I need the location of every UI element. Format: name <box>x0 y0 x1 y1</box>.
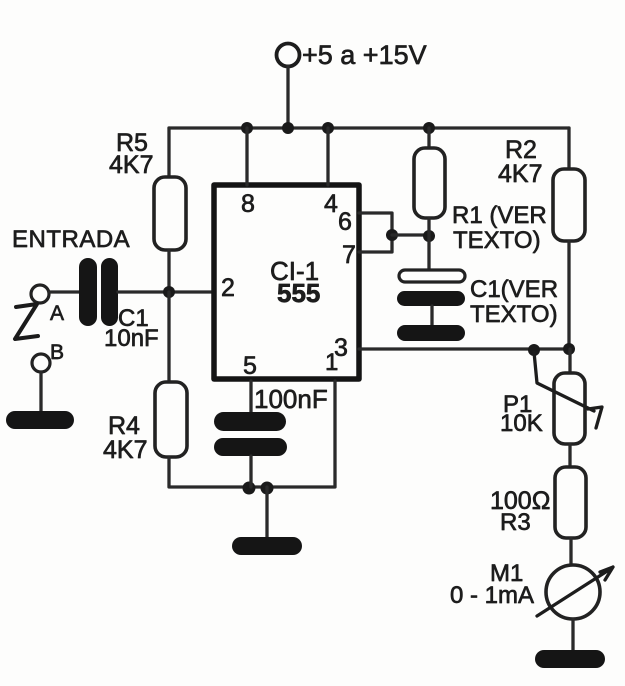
resistor R3 <box>555 467 586 538</box>
wire pin8 <box>245 128 248 185</box>
wire R1 to C1 <box>427 218 430 270</box>
svg-text:10nF: 10nF <box>104 325 159 352</box>
wire cap to rail <box>249 456 252 487</box>
wire C1 to ground <box>430 306 433 325</box>
meter M1 <box>546 565 600 619</box>
wire bus corner to R2 <box>567 128 570 169</box>
junction loop <box>386 229 398 241</box>
Z squiggle <box>15 304 38 339</box>
resistor R5 <box>154 177 186 250</box>
junction 100nF rail <box>243 482 256 495</box>
wire C1 to pin2 <box>118 290 214 293</box>
junction pin8 bus <box>241 122 253 134</box>
svg-text:3: 3 <box>334 334 348 362</box>
wire R3 to M1 <box>569 538 572 566</box>
P1 wiper arrow <box>534 352 602 428</box>
svg-text:B: B <box>50 341 64 364</box>
wire pin4 <box>326 128 329 185</box>
svg-text:ENTRADA: ENTRADA <box>12 226 130 253</box>
junction wiper node <box>528 344 540 356</box>
svg-text:8: 8 <box>241 190 255 218</box>
junction power bus <box>282 122 294 134</box>
resistor R2 <box>553 169 585 241</box>
svg-text:6: 6 <box>338 208 352 236</box>
wire M1 to ground <box>571 619 574 651</box>
ground C1 <box>397 325 465 341</box>
capacitor C1 timing plate1 <box>399 270 465 282</box>
wire rail to ground <box>265 487 268 538</box>
svg-text:TEXTO): TEXTO) <box>470 301 558 328</box>
svg-text:TEXTO): TEXTO) <box>453 227 541 254</box>
wire R2 down to pin3 node <box>567 241 570 349</box>
wire pin5 <box>249 381 252 412</box>
terminal A <box>31 285 49 303</box>
resistor R4 <box>155 382 187 457</box>
svg-text:555: 555 <box>277 278 320 308</box>
svg-text:R3: R3 <box>500 509 531 536</box>
potentiometer P1 <box>554 373 585 444</box>
svg-text:2: 2 <box>221 274 235 302</box>
svg-text:0 - 1mA: 0 - 1mA <box>450 582 534 609</box>
junction node pin2 <box>163 286 175 298</box>
capacitor C1 input plate1 <box>79 258 97 326</box>
svg-text:5: 5 <box>243 352 257 380</box>
ground 100nF <box>232 537 302 555</box>
op-amp U1 CI-1 555 box <box>214 185 359 379</box>
wire bus to R1 <box>427 128 430 148</box>
wire pin6 pin7 loop <box>359 213 392 252</box>
wire loop to R1 <box>392 233 429 236</box>
wire R4 to bottom rail <box>169 381 335 487</box>
svg-text:R1 (VER: R1 (VER <box>452 202 547 229</box>
power terminal +V <box>277 44 300 67</box>
capacitor 100nF plate2 <box>214 438 287 456</box>
junction ground rail <box>261 482 274 495</box>
svg-text:A: A <box>50 302 64 325</box>
wire pin3 output <box>359 347 569 350</box>
wire bus to R5 <box>167 128 170 177</box>
terminal B <box>32 354 50 372</box>
svg-text:4K7: 4K7 <box>498 160 542 188</box>
wire R5 to node <box>167 250 170 292</box>
junction R1 C1 <box>423 230 435 242</box>
junction R1 bus <box>423 122 435 134</box>
svg-text:10K: 10K <box>500 410 543 437</box>
capacitor 100nF plate1 <box>214 412 286 431</box>
capacitor C1 timing plate2 <box>397 291 465 306</box>
ground M1 <box>535 650 605 668</box>
wire power drop <box>286 66 289 128</box>
wire node to R4 <box>167 292 170 382</box>
capacitor C1 input plate2 <box>101 258 118 326</box>
ground input <box>6 411 74 429</box>
supply bus wire <box>169 126 569 129</box>
wire A to C1 <box>49 290 79 293</box>
wire P1 to R3 <box>568 444 571 467</box>
svg-text:C1(VER: C1(VER <box>470 276 558 303</box>
svg-text:4K7: 4K7 <box>103 436 147 464</box>
svg-text:7: 7 <box>342 241 356 269</box>
svg-text:100nF: 100nF <box>254 384 328 414</box>
junction pin4 bus <box>322 122 334 134</box>
wire B to ground <box>39 372 42 413</box>
svg-text:4K7: 4K7 <box>109 151 153 179</box>
junction pin3 R2 <box>563 343 575 355</box>
svg-text:+5 a +15V: +5 a +15V <box>302 40 427 70</box>
M1 needle arrow <box>537 567 613 616</box>
svg-text:4: 4 <box>324 190 338 218</box>
resistor R1 <box>414 148 445 218</box>
wire node to P1 <box>568 349 571 373</box>
